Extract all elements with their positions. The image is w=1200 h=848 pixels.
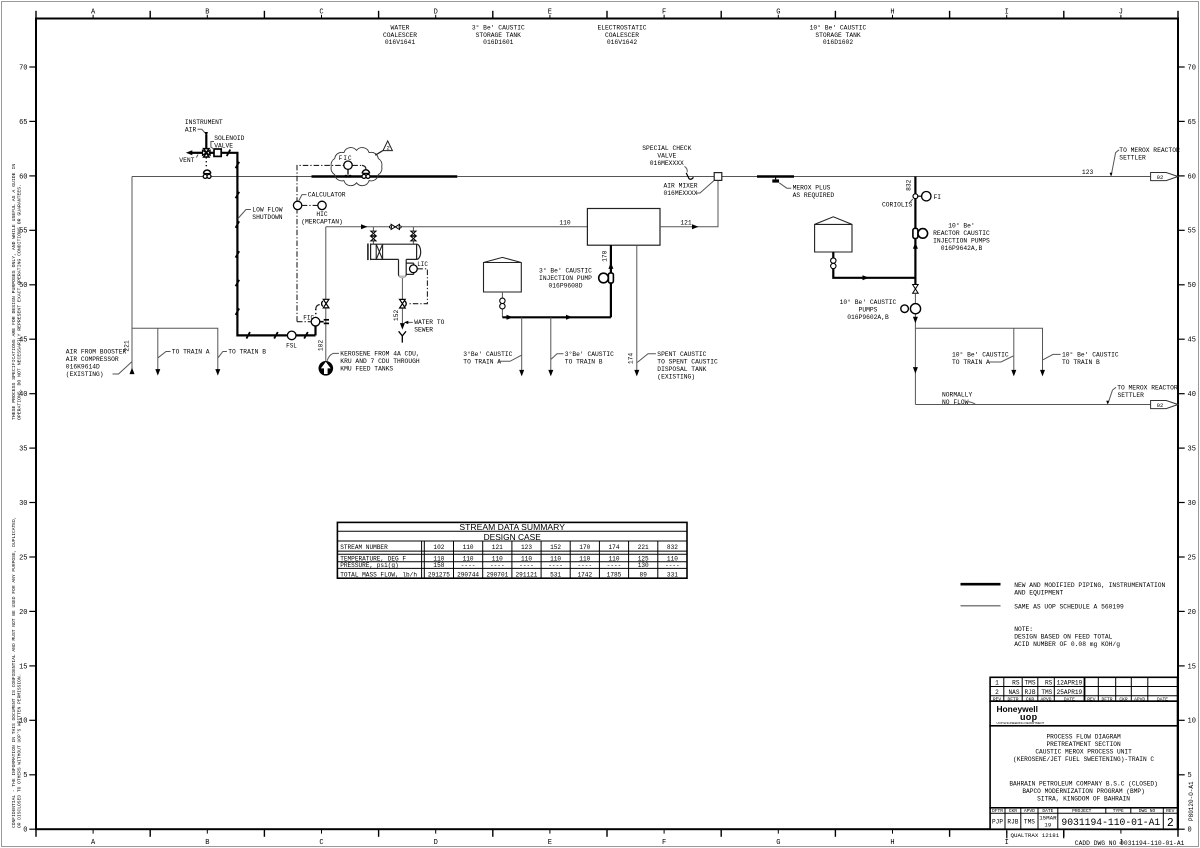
- svg-text:CKR: CKR: [1009, 808, 1018, 814]
- open drain symbol Y: [399, 331, 406, 342]
- svg-text:REACTOR CAUSTIC: REACTOR CAUSTIC: [933, 230, 990, 237]
- svg-text:152: 152: [393, 310, 400, 322]
- drain control valve: [400, 299, 406, 308]
- svg-text:5: 5: [23, 772, 27, 780]
- svg-text:016D1601: 016D1601: [483, 39, 513, 46]
- svg-text:016P9642A,B: 016P9642A,B: [941, 245, 983, 252]
- svg-text:016V1641: 016V1641: [385, 39, 415, 46]
- svg-text:TO MEROX REACTOR: TO MEROX REACTOR: [1119, 147, 1180, 154]
- svg-text:FSL: FSL: [286, 342, 297, 349]
- svg-text:331: 331: [667, 572, 678, 579]
- svg-text:QUALTRAX 12181: QUALTRAX 12181: [1011, 832, 1060, 839]
- off-page connector 02 top: [1151, 173, 1178, 181]
- svg-text:CALCULATOR: CALCULATOR: [308, 192, 346, 199]
- svg-text:VALVE: VALVE: [214, 142, 233, 149]
- svg-text:BAHRAIN PETROLEUM COMPANY B.S.: BAHRAIN PETROLEUM COMPANY B.S.C (CLOSED): [1009, 781, 1158, 788]
- svg-text:H: H: [890, 839, 894, 847]
- svg-text:291275: 291275: [428, 572, 450, 579]
- LIC bridle: [406, 263, 414, 274]
- wire normally no flow to settler: [915, 404, 1150, 406]
- svg-text:APVD: APVD: [1024, 808, 1035, 814]
- svg-text:DWG NO: DWG NO: [1139, 808, 1156, 814]
- svg-text:(MERCAPTAN): (MERCAPTAN): [301, 218, 343, 225]
- signal slashes low flow shutdown line: [236, 162, 240, 168]
- svg-text:RJB: RJB: [1007, 819, 1018, 826]
- svg-text:65: 65: [19, 119, 27, 127]
- svg-text:70: 70: [1188, 64, 1196, 72]
- svg-text:TMS: TMS: [1025, 680, 1036, 687]
- svg-text:(EXISTING): (EXISTING): [657, 373, 695, 380]
- wire 10Be distribution header: [915, 328, 1042, 372]
- instrument FI: [922, 192, 931, 201]
- svg-text:174: 174: [609, 544, 620, 551]
- svg-text:TO TRAIN A: TO TRAIN A: [463, 358, 501, 365]
- svg-text:STREAM NUMBER: STREAM NUMBER: [340, 544, 388, 551]
- svg-text:THESE PROCESS SPECIFICATIONS A: THESE PROCESS SPECIFICATIONS ARE FOR DES…: [11, 164, 17, 420]
- wire dash-dot calculator loop: [297, 165, 344, 321]
- svg-text:10° Be' CAUSTIC: 10° Be' CAUSTIC: [840, 298, 897, 306]
- svg-text:C: C: [319, 839, 323, 847]
- wire air riser 221: [131, 177, 133, 374]
- wire dash-dot calc to HIC: [302, 204, 318, 206]
- valve below junction: [913, 285, 919, 294]
- svg-text:110: 110: [559, 219, 571, 226]
- valve on line 110: [391, 224, 399, 229]
- check valve (two balls) tank outlet: [500, 298, 505, 303]
- pumps 10Be caustic 016P9602A,B: [901, 305, 909, 313]
- svg-text:----: ----: [665, 562, 680, 569]
- legend new piping thick line: [961, 583, 1001, 586]
- svg-text:110: 110: [463, 544, 474, 551]
- svg-text:NOTE:: NOTE:: [1014, 626, 1033, 633]
- wire drop to train A (3Be): [521, 317, 523, 372]
- node air line start arrow: [130, 368, 135, 375]
- svg-text:TMS: TMS: [1024, 819, 1035, 826]
- wire boot drain: [401, 278, 403, 325]
- svg-text:TO TRAIN A: TO TRAIN A: [172, 349, 210, 356]
- svg-text:----: ----: [548, 562, 563, 569]
- svg-text:170: 170: [601, 250, 608, 262]
- control valve in cloud (dome + ball): [362, 170, 369, 174]
- wire solenoid output signal: [221, 153, 315, 336]
- svg-text:60: 60: [19, 173, 27, 181]
- svg-text:0: 0: [1188, 827, 1192, 835]
- svg-text:----: ----: [519, 562, 534, 569]
- svg-text:016V1642: 016V1642: [607, 39, 637, 46]
- svg-text:40: 40: [1188, 391, 1196, 399]
- svg-text:158: 158: [433, 562, 444, 569]
- svg-text:102: 102: [317, 340, 324, 352]
- svg-text:02: 02: [1157, 174, 1164, 181]
- svg-text:PRESSURE, psi(g): PRESSURE, psi(g): [340, 562, 399, 569]
- wire to 10Be pumps: [914, 293, 916, 404]
- svg-text:123: 123: [521, 544, 532, 551]
- svg-text:123: 123: [1082, 169, 1094, 176]
- svg-text:AS REQUIRED: AS REQUIRED: [793, 192, 835, 199]
- svg-text:VALVE: VALVE: [657, 153, 676, 160]
- svg-text:2: 2: [1167, 817, 1174, 830]
- qualtrax note: [1006, 831, 1008, 839]
- svg-text:2: 2: [995, 689, 999, 696]
- vessel water coalescer 016V1641: [371, 244, 417, 259]
- off-page connector 02 bottom: [1151, 401, 1178, 409]
- svg-text:RS: RS: [1012, 680, 1020, 687]
- svg-text:DFTR: DFTR: [992, 808, 1003, 814]
- svg-text:PROCESS FLOW DIAGRAM: PROCESS FLOW DIAGRAM: [1046, 734, 1121, 741]
- svg-text:2: 2: [386, 144, 390, 151]
- wire to solenoid: [209, 152, 214, 154]
- revision cloud: [331, 148, 382, 186]
- instrument FIC kerosene: [311, 317, 320, 326]
- svg-text:5: 5: [1188, 772, 1192, 780]
- wire kerosene line 102: [325, 227, 327, 361]
- svg-text:0: 0: [23, 827, 27, 835]
- svg-text:----: ----: [490, 562, 505, 569]
- svg-text:ELECTROSTATIC: ELECTROSTATIC: [597, 25, 646, 32]
- air mixer box: [714, 173, 722, 181]
- svg-text:----: ----: [461, 562, 476, 569]
- svg-text:KEROSENE FROM 4A CDU,: KEROSENE FROM 4A CDU,: [340, 351, 419, 358]
- svg-text:AIR COMPRESSOR: AIR COMPRESSOR: [66, 356, 119, 363]
- svg-text:PJP: PJP: [992, 819, 1003, 826]
- wire drop to train B (3Be): [550, 317, 552, 372]
- svg-text:NAS: NAS: [1009, 689, 1020, 696]
- svg-text:RJB: RJB: [1025, 689, 1036, 696]
- svg-text:SPENT CAUSTIC: SPENT CAUSTIC: [657, 351, 706, 358]
- svg-text:STORAGE TANK: STORAGE TANK: [815, 32, 861, 39]
- svg-text:30: 30: [19, 500, 27, 508]
- svg-text:3° Be' CAUSTIC: 3° Be' CAUSTIC: [472, 24, 525, 32]
- special check valve symbol: [686, 173, 693, 179]
- svg-text:OR DISCLOSED TO OTHERS WITHOUT: OR DISCLOSED TO OTHERS WITHOUT UOP'S WRI…: [17, 674, 23, 828]
- svg-text:FIC: FIC: [339, 155, 353, 162]
- water boot: [399, 259, 407, 277]
- stream data summary table: [337, 522, 687, 578]
- svg-text:121: 121: [492, 544, 503, 551]
- wire 10Be tank outlet: [833, 252, 915, 278]
- pipeline connector kerosene feed: [319, 361, 334, 376]
- legend existing thin line: [961, 605, 1001, 607]
- svg-text:CADD DWG NO 9031194-110-01-A1: CADD DWG NO 9031194-110-01-A1: [1075, 840, 1185, 847]
- svg-text:STREAM DATA SUMMARY: STREAM DATA SUMMARY: [459, 522, 565, 532]
- coalescer element hatch: [375, 244, 377, 259]
- svg-text:TO MEROX REACTOR: TO MEROX REACTOR: [1117, 384, 1178, 391]
- svg-text:SITRA, KINGDOM OF BAHRAIN: SITRA, KINGDOM OF BAHRAIN: [1037, 795, 1130, 802]
- block valves inlet A: [371, 231, 376, 236]
- svg-text:832: 832: [906, 179, 913, 191]
- svg-text:174: 174: [628, 353, 635, 365]
- svg-text:E: E: [548, 839, 552, 847]
- svg-text:30: 30: [1188, 500, 1196, 508]
- svg-text:290701: 290701: [486, 572, 508, 579]
- wire line 110 to electrostatic coalescer: [326, 226, 588, 228]
- svg-text:3°Be' CAUSTIC: 3°Be' CAUSTIC: [565, 350, 614, 358]
- svg-text:INJECTION PUMP: INJECTION PUMP: [539, 275, 592, 282]
- svg-text:45: 45: [1188, 337, 1196, 345]
- svg-text:20: 20: [1188, 609, 1196, 617]
- svg-text:STORAGE TANK: STORAGE TANK: [476, 32, 522, 39]
- svg-text:TO TRAIN B: TO TRAIN B: [228, 349, 266, 356]
- vessel electrostatic coalescer 016V1642: [587, 209, 660, 246]
- svg-text:25: 25: [19, 554, 27, 562]
- svg-text:290744: 290744: [457, 572, 479, 579]
- svg-text:(KEROSENE/JET FUEL SWEETENING): (KEROSENE/JET FUEL SWEETENING)-TRAIN C: [1013, 756, 1154, 763]
- svg-text:COALESCER: COALESCER: [383, 32, 417, 39]
- wire tank outlet: [501, 292, 503, 317]
- svg-text:TO SPENT CAUSTIC: TO SPENT CAUSTIC: [657, 358, 718, 365]
- control valve on air header at B (dome + ball): [204, 170, 211, 174]
- svg-text:AIR MIXER: AIR MIXER: [664, 183, 698, 190]
- svg-text:130: 130: [638, 562, 649, 569]
- svg-text:50: 50: [1188, 282, 1196, 290]
- svg-text:TO TRAIN B: TO TRAIN B: [565, 358, 603, 365]
- left margin note upper: [11, 164, 23, 420]
- wire dashdot LIC to drain valve: [409, 269, 427, 304]
- svg-text:B: B: [205, 839, 209, 847]
- wire line 121 to air mixer: [660, 180, 718, 226]
- svg-text:CORIOLIS: CORIOLIS: [882, 201, 912, 208]
- svg-text:170: 170: [579, 544, 590, 551]
- svg-text:291121: 291121: [516, 572, 538, 579]
- svg-text:152: 152: [550, 544, 561, 551]
- svg-text:OPERATIONS, DO NOT NECESSARILY: OPERATIONS, DO NOT NECESSARILY REPRESENT…: [17, 184, 23, 420]
- svg-text:LOW FLOW: LOW FLOW: [252, 207, 282, 214]
- revision triangle flag 2: [375, 150, 383, 155]
- wire main air header thick modified section: [312, 175, 458, 177]
- svg-text:35: 35: [19, 446, 27, 454]
- wire caustic distribution header: [502, 316, 611, 318]
- wire vent line: [190, 152, 204, 154]
- svg-text:1: 1: [995, 680, 999, 687]
- svg-text:35: 35: [1188, 446, 1196, 454]
- svg-text:016D1602: 016D1602: [823, 39, 853, 46]
- svg-text:SAME AS UOP SCHEDULE A 560199: SAME AS UOP SCHEDULE A 560199: [1014, 603, 1124, 610]
- svg-text:KRU AND 7 CDU THROUGH: KRU AND 7 CDU THROUGH: [340, 358, 420, 365]
- coriolis tap circle: [913, 194, 918, 199]
- svg-text:FI: FI: [934, 194, 942, 201]
- wire water coalescer inlet branches: [372, 227, 374, 244]
- svg-text:CAUSTIC MEROX PROCESS UNIT: CAUSTIC MEROX PROCESS UNIT: [1035, 749, 1132, 756]
- svg-text:REV: REV: [1166, 808, 1175, 814]
- svg-text:70: 70: [19, 64, 27, 72]
- svg-text:WATER: WATER: [391, 25, 410, 32]
- svg-text:016MEXXXX: 016MEXXXX: [650, 160, 684, 167]
- pump 3Be caustic injection 016P9608D: [608, 273, 613, 283]
- wire main air header thin right: [457, 176, 1150, 178]
- tank 10Be caustic storage 016D1602: [815, 217, 852, 252]
- svg-text:COALESCER: COALESCER: [605, 32, 639, 39]
- svg-text:CONFIDENTIAL - THE INFORMATION: CONFIDENTIAL - THE INFORMATION IN THIS D…: [11, 516, 17, 828]
- svg-text:SOLENOID: SOLENOID: [214, 135, 244, 142]
- instrument FSL: [287, 331, 296, 340]
- wire main air header thin left: [132, 176, 312, 178]
- svg-text:65: 65: [1188, 119, 1196, 127]
- svg-text:60: 60: [1188, 173, 1196, 181]
- svg-text:1785: 1785: [607, 572, 622, 579]
- svg-text:25: 25: [1188, 554, 1196, 562]
- svg-text:PROJECT: PROJECT: [1072, 808, 1092, 814]
- svg-text:----: ----: [577, 562, 592, 569]
- svg-text:D: D: [434, 839, 438, 847]
- svg-text:19: 19: [1044, 821, 1051, 828]
- svg-text:531: 531: [550, 572, 561, 579]
- svg-text:P80120-O-A1: P80120-O-A1: [1188, 781, 1195, 821]
- svg-text:----: ----: [607, 562, 622, 569]
- svg-text:PUMPS: PUMPS: [859, 306, 878, 313]
- svg-text:NEW AND MODIFIED PIPING, INSTR: NEW AND MODIFIED PIPING, INSTRUMENTATION: [1014, 582, 1165, 589]
- svg-text:SETTLER: SETTLER: [1118, 392, 1145, 399]
- svg-text:SEWER: SEWER: [414, 326, 433, 333]
- svg-text:DESIGN BASED ON FEED TOTAL: DESIGN BASED ON FEED TOTAL: [1014, 633, 1112, 640]
- svg-text:3° Be' CAUSTIC: 3° Be' CAUSTIC: [539, 266, 592, 274]
- solenoid valve box: [214, 149, 221, 156]
- wire caustic injection 832 riser: [914, 177, 916, 229]
- svg-text:I: I: [1005, 839, 1009, 847]
- svg-text:10: 10: [1188, 718, 1196, 726]
- svg-text:SHUTDOWN: SHUTDOWN: [252, 214, 282, 221]
- svg-text:BAPCO MODERNIZATION PROGRAM (B: BAPCO MODERNIZATION PROGRAM (BMP): [1022, 788, 1145, 795]
- svg-text:SPECIAL CHECK: SPECIAL CHECK: [642, 145, 691, 152]
- svg-text:10° Be' CAUSTIC: 10° Be' CAUSTIC: [1062, 351, 1119, 359]
- svg-text:TOTAL MASS FLOW, lb/h: TOTAL MASS FLOW, lb/h: [340, 572, 417, 579]
- project number row: [990, 808, 1177, 829]
- left margin note lower (confidential): [11, 516, 23, 828]
- svg-text:KMU FEED TANKS: KMU FEED TANKS: [340, 366, 393, 373]
- valve three-way at instrument air junction: [204, 149, 209, 157]
- title text box: [990, 726, 1177, 808]
- svg-text:F: F: [662, 839, 666, 847]
- svg-text:15: 15: [1188, 663, 1196, 671]
- svg-text:016P9608D: 016P9608D: [548, 282, 582, 289]
- svg-text:RS: RS: [1045, 680, 1053, 687]
- svg-text:12APR19: 12APR19: [1057, 680, 1083, 687]
- svg-text:NO FLOW: NO FLOW: [942, 399, 969, 406]
- svg-text:DESIGN CASE: DESIGN CASE: [484, 532, 542, 542]
- svg-text:VENT: VENT: [179, 157, 194, 164]
- svg-text:3°Be' CAUSTIC: 3°Be' CAUSTIC: [463, 350, 512, 358]
- svg-text:016MEXXXX: 016MEXXXX: [664, 190, 698, 197]
- svg-text:INSTRUMENT: INSTRUMENT: [185, 119, 223, 126]
- svg-text:TO TRAIN A: TO TRAIN A: [952, 359, 990, 366]
- instrument FIC in cloud: [344, 161, 352, 169]
- instrument HIC circle: [318, 201, 326, 209]
- wire FIC to FSL signal: [314, 326, 316, 335]
- check valve (two balls) 10Be outlet: [831, 258, 836, 263]
- control valve on kerosene line: [323, 299, 329, 308]
- instrument calculator circle: [293, 201, 301, 209]
- svg-text:AIR FROM BOOSTER: AIR FROM BOOSTER: [66, 349, 127, 356]
- orifice taps on kerosene line: [320, 321, 324, 323]
- svg-text:TO TRAIN B: TO TRAIN B: [1062, 359, 1100, 366]
- svg-text:HIC: HIC: [316, 211, 328, 218]
- wire dotted solenoid to valve actuator: [205, 157, 207, 169]
- svg-text:NORMALLY: NORMALLY: [942, 391, 972, 398]
- svg-text:832: 832: [667, 544, 678, 551]
- svg-text:25APR19: 25APR19: [1057, 689, 1083, 696]
- svg-text:TYPE: TYPE: [1113, 808, 1124, 814]
- svg-text:55: 55: [1188, 228, 1196, 236]
- svg-text:102: 102: [433, 544, 444, 551]
- svg-text:WATER TO: WATER TO: [414, 319, 444, 326]
- svg-text:10° Be' CAUSTIC: 10° Be' CAUSTIC: [952, 351, 1009, 359]
- svg-text:(EXISTING): (EXISTING): [66, 371, 104, 378]
- svg-text:121: 121: [680, 219, 692, 226]
- block valves inlet B: [411, 231, 416, 236]
- pump 10Be reactor caustic injection: [913, 228, 918, 238]
- svg-text:1742: 1742: [577, 572, 592, 579]
- svg-text:UOP ENGINEERING DEPARTMENT: UOP ENGINEERING DEPARTMENT: [997, 721, 1045, 725]
- svg-text:SETTLER: SETTLER: [1119, 154, 1146, 161]
- svg-text:FIC: FIC: [303, 315, 314, 322]
- wire air branch to trains: [132, 328, 218, 370]
- honeywell uop logo box: [990, 701, 1177, 726]
- instrument LIC: [410, 265, 418, 273]
- svg-text:89: 89: [640, 572, 648, 579]
- svg-text:10° Be' CAUSTIC: 10° Be' CAUSTIC: [810, 24, 867, 32]
- tank 3Be caustic storage 016D1601: [484, 257, 522, 292]
- svg-text:TMS: TMS: [1041, 689, 1052, 696]
- svg-text:02: 02: [1157, 402, 1164, 409]
- svg-text:20: 20: [19, 609, 27, 617]
- svg-text:DISPOSAL TANK: DISPOSAL TANK: [657, 366, 706, 373]
- grid row numbers and ticks: [29, 828, 36, 830]
- svg-text:INJECTION PUMPS: INJECTION PUMPS: [933, 238, 990, 245]
- svg-text:AND EQUIPMENT: AND EQUIPMENT: [1014, 589, 1063, 596]
- svg-text:221: 221: [638, 544, 649, 551]
- svg-text:15: 15: [19, 663, 27, 671]
- wire instrument air supply: [205, 135, 207, 150]
- wire dashdot FIC left to calculator line: [297, 321, 311, 323]
- svg-text:ACID NUMBER OF 0.08 mg KOH/g: ACID NUMBER OF 0.08 mg KOH/g: [1014, 641, 1120, 648]
- svg-text:G: G: [776, 839, 780, 847]
- wire spent caustic 174: [636, 245, 638, 372]
- svg-text:9031194-110-01-A1: 9031194-110-01-A1: [1061, 817, 1160, 828]
- svg-text:PRETREATMENT SECTION: PRETREATMENT SECTION: [1046, 741, 1121, 748]
- merox plus injection point: [775, 177, 777, 180]
- svg-text:016K9614D: 016K9614D: [66, 364, 100, 371]
- wire merox plus thick segment: [757, 175, 794, 177]
- svg-text:10° Be': 10° Be': [948, 222, 974, 230]
- svg-text:AIR: AIR: [185, 126, 197, 133]
- wire injection riser 170: [610, 283, 612, 317]
- title block revision table: [990, 677, 1177, 701]
- svg-text:DATE: DATE: [1042, 808, 1053, 814]
- svg-text:MEROX PLUS: MEROX PLUS: [793, 185, 831, 192]
- svg-text:016P9602A,B: 016P9602A,B: [847, 314, 889, 321]
- svg-text:LIC: LIC: [417, 261, 428, 268]
